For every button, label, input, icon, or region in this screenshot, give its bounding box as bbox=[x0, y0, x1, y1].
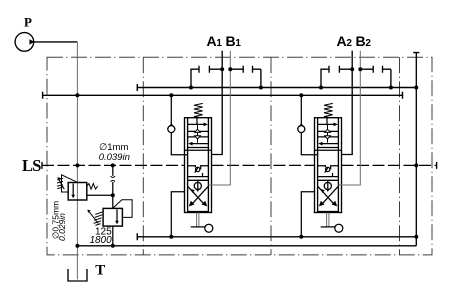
wire: pilot relief to main relief pilot bbox=[87, 194, 113, 196]
bus line tank gallery bbox=[77, 245, 416, 247]
wire: LS to main relief with orifice bbox=[112, 165, 114, 208]
wire: P to manifold bbox=[34, 41, 78, 43]
svg-text:T: T bbox=[95, 263, 105, 279]
LS line end ticks bbox=[42, 162, 437, 169]
work section 2 bbox=[297, 51, 393, 239]
svg-text:∅1mm: ∅1mm bbox=[99, 142, 128, 153]
bus line upper (LS gallery) bbox=[137, 84, 416, 91]
pump port P circle bbox=[15, 33, 34, 52]
main relief adjust arrow bbox=[89, 212, 98, 223]
pilot relief adjust spring ticks bbox=[57, 178, 63, 188]
svg-text:0.029in: 0.029in bbox=[57, 213, 67, 241]
end riser with capped port bbox=[413, 53, 419, 246]
orifice 1mm bbox=[111, 176, 116, 182]
section divider 2 bbox=[270, 57, 272, 255]
section divider 1 bbox=[142, 57, 144, 255]
main relief valve box bbox=[103, 208, 122, 226]
pilot relief spring bbox=[87, 184, 98, 190]
svg-text:0.039in: 0.039in bbox=[99, 152, 130, 163]
svg-text:LS: LS bbox=[22, 156, 41, 175]
section divider 3 bbox=[399, 57, 401, 255]
junction riser/upper-bus bbox=[414, 86, 418, 90]
junction riser/return-bus bbox=[414, 235, 418, 239]
junction riser/LS line bbox=[414, 163, 418, 167]
pilot relief adjust arrow bbox=[59, 179, 65, 189]
pilot relief valve box bbox=[68, 183, 87, 201]
svg-text:P: P bbox=[24, 15, 32, 30]
main relief remote pilot loop bbox=[113, 200, 132, 218]
pilot relief internal flow arrow bbox=[72, 184, 74, 196]
junction P-chain/LS line bbox=[75, 163, 79, 167]
main relief internal flow arrow bbox=[116, 209, 118, 221]
pilot relief remote pilot loop bbox=[62, 175, 78, 192]
bus line P gallery bbox=[43, 92, 403, 99]
wire: main relief to tank bus bbox=[112, 226, 114, 246]
svg-text:1800: 1800 bbox=[89, 235, 112, 246]
junction P-chain/tank-bus bbox=[75, 244, 79, 248]
junction P-chain/P-bus bbox=[75, 93, 79, 97]
work section 1 bbox=[167, 51, 263, 239]
LS pilot line (dashed) bbox=[42, 164, 437, 166]
main relief spring bbox=[94, 212, 103, 226]
bus line return upper bbox=[137, 233, 416, 240]
wire: P/relief vertical chain bbox=[76, 42, 78, 280]
tank symbol bbox=[68, 269, 87, 281]
enclosure border (dash-dot) bbox=[47, 57, 432, 255]
